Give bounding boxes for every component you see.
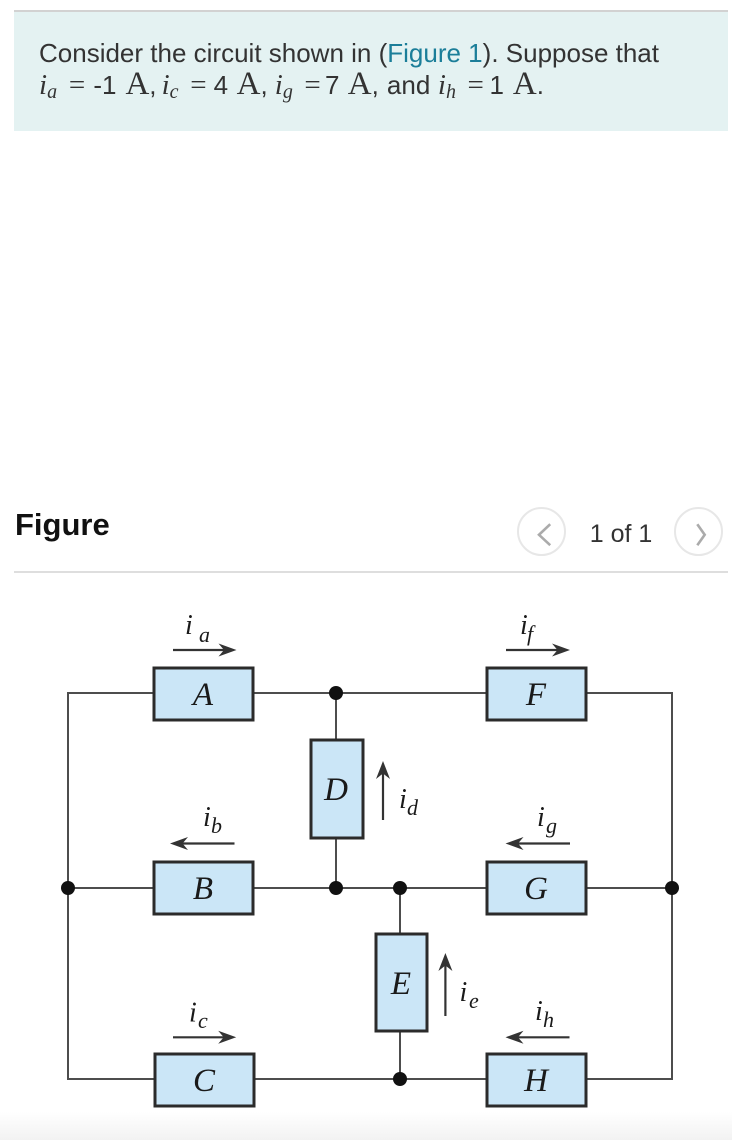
- bottom gradient edge: [0, 1112, 732, 1140]
- svg-text:a: a: [199, 622, 210, 647]
- wire left rail: [68, 693, 155, 1079]
- current arrow i_h: [506, 996, 570, 1044]
- current arrow i_b: [170, 802, 235, 850]
- svg-text:f: f: [527, 621, 536, 646]
- page indicator: [565, 520, 677, 549]
- wire mid row B to G: [253, 887, 487, 889]
- svg-text:i: i: [185, 610, 193, 641]
- wire mid row left rail to B: [68, 887, 154, 889]
- node mid D junction: [329, 881, 343, 895]
- svg-text:d: d: [407, 795, 419, 820]
- wire mid row G to right rail: [586, 887, 672, 889]
- current arrow i_g: [506, 802, 571, 850]
- svg-text:g: g: [546, 813, 557, 838]
- divider: [14, 571, 728, 573]
- wire mid row to E: [399, 888, 401, 934]
- element D: [311, 740, 363, 838]
- svg-text:i: i: [399, 784, 407, 815]
- wire D to mid row: [335, 838, 337, 888]
- svg-text:e: e: [469, 988, 479, 1013]
- svg-text:i: i: [535, 996, 543, 1027]
- svg-text:E: E: [390, 966, 411, 1002]
- node mid right rail: [665, 881, 679, 895]
- nav button next: [674, 507, 723, 556]
- circuit schematic figure: [0, 580, 732, 1112]
- node mid E junction: [393, 881, 407, 895]
- svg-text:h: h: [543, 1007, 554, 1032]
- svg-text:D: D: [323, 772, 348, 808]
- element H: [487, 1054, 586, 1106]
- nav button previous: [517, 507, 566, 556]
- wire top row A to F: [253, 692, 487, 694]
- svg-text:i: i: [203, 802, 211, 833]
- wire E to bottom row: [399, 1031, 401, 1079]
- current arrow i_e: [438, 953, 479, 1016]
- element E: [376, 934, 427, 1031]
- node bottom E junction: [393, 1072, 407, 1086]
- svg-text:G: G: [524, 871, 548, 907]
- wire node top to D: [335, 693, 337, 740]
- node mid left rail: [61, 881, 75, 895]
- svg-text:C: C: [193, 1063, 216, 1099]
- figure header: [15, 507, 110, 543]
- svg-text:i: i: [189, 998, 197, 1029]
- node top (A-D-F junction): [329, 686, 343, 700]
- wire right rail: [586, 693, 672, 1079]
- element G: [487, 862, 586, 914]
- wire bottom row C to H: [254, 1078, 487, 1080]
- svg-text:B: B: [193, 871, 213, 907]
- svg-text:F: F: [525, 677, 547, 713]
- svg-text:H: H: [523, 1063, 550, 1099]
- svg-text:A: A: [191, 677, 214, 713]
- element B: [154, 862, 253, 914]
- current arrow i_f: [506, 610, 570, 657]
- element A: [154, 668, 253, 720]
- current arrow i_a: [173, 610, 237, 657]
- intro problem statement panel: [14, 10, 728, 131]
- element F: [487, 668, 586, 720]
- svg-text:i: i: [460, 977, 468, 1008]
- svg-text:c: c: [198, 1008, 208, 1033]
- current arrow i_c: [173, 998, 236, 1044]
- current arrow i_d: [376, 761, 419, 820]
- svg-text:i: i: [537, 802, 545, 833]
- svg-text:b: b: [211, 813, 222, 838]
- element C: [155, 1054, 254, 1106]
